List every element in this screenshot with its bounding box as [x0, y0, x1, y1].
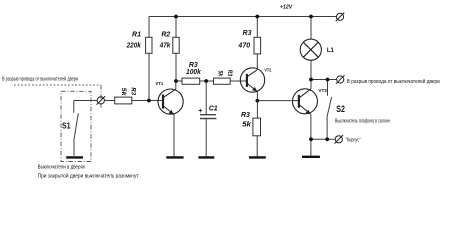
- svg-text:47k: 47k: [159, 42, 171, 49]
- svg-text:В разрыв провода от выключател: В разрыв провода от выключателей двери: [2, 76, 78, 83]
- svg-text:S2: S2: [336, 104, 345, 114]
- svg-text:R3: R3: [243, 30, 252, 37]
- svg-text:5k: 5k: [120, 88, 126, 97]
- svg-text:S1: S1: [62, 121, 71, 131]
- svg-text:L1: L1: [327, 48, 335, 54]
- svg-text:220k: 220k: [126, 42, 142, 49]
- svg-text:"Корпус": "Корпус": [346, 137, 361, 143]
- svg-text:Выключатель плафона в салоне: Выключатель плафона в салоне: [335, 118, 390, 124]
- svg-text:5k: 5k: [216, 71, 222, 77]
- svg-text:100k: 100k: [186, 69, 202, 76]
- svg-text:R3: R3: [226, 70, 232, 77]
- svg-text:+: +: [198, 108, 202, 115]
- svg-text:470: 470: [237, 42, 250, 49]
- svg-text:R3: R3: [241, 112, 250, 119]
- svg-text:+12V: +12V: [280, 4, 293, 10]
- svg-text:В разрыв провода от выключател: В разрыв провода от выключателей двери: [347, 78, 440, 85]
- svg-text:R2: R2: [161, 31, 170, 38]
- svg-text:VT2: VT2: [264, 68, 271, 73]
- svg-text:C1: C1: [209, 105, 218, 112]
- svg-text:R1: R1: [132, 31, 141, 38]
- svg-text:R3: R3: [189, 62, 198, 69]
- svg-text:При закрытой двери выключатель: При закрытой двери выключатель разомкнут: [38, 172, 140, 179]
- svg-text:R3: R3: [130, 87, 136, 95]
- svg-text:VT1: VT1: [155, 81, 163, 86]
- svg-text:Выключатели в дверях: Выключатели в дверях: [38, 165, 86, 171]
- svg-text:5k: 5k: [242, 122, 252, 129]
- svg-text:VT3: VT3: [318, 88, 327, 93]
